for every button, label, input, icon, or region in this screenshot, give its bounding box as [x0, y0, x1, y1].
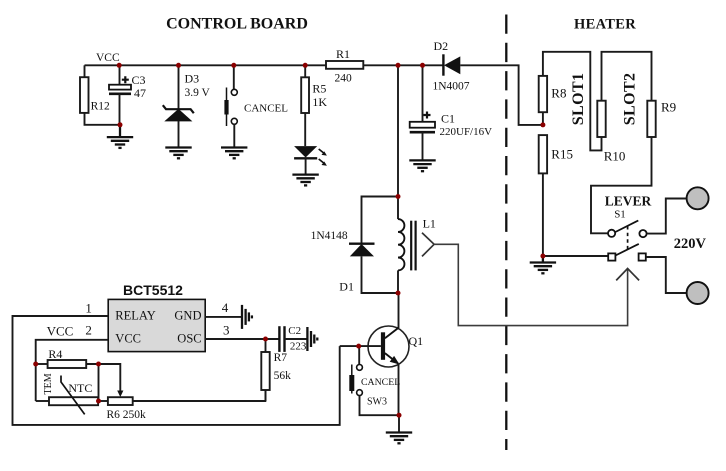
svg-text:R12: R12 [91, 101, 110, 113]
svg-text:1N4148: 1N4148 [311, 230, 348, 242]
wire rail R1 to D2 [363, 64, 443, 66]
svg-text:R4: R4 [48, 347, 62, 361]
ground (Q1) [386, 433, 412, 444]
linkage wire contact to lever arrow [434, 244, 627, 325]
resistor R7 [261, 339, 291, 401]
relay coil L1 [398, 216, 436, 293]
svg-text:3.9 V: 3.9 V [185, 87, 211, 99]
svg-text:D2: D2 [434, 39, 449, 53]
wire VCC top rail [85, 64, 327, 66]
svg-text:SW3: SW3 [367, 397, 387, 408]
capacitor C3 [109, 65, 146, 125]
svg-text:CANCEL: CANCEL [244, 102, 288, 114]
svg-text:GND: GND [174, 308, 201, 322]
LED D4 [294, 146, 327, 175]
svg-text:2: 2 [85, 323, 92, 338]
wire emitter to ground [398, 415, 400, 432]
ground (C2, sideways) [307, 327, 317, 351]
wire S1 bottom to terminal [646, 257, 687, 293]
svg-text:NTC: NTC [68, 381, 92, 395]
wire pin1 RELAY loop to base [13, 316, 340, 425]
svg-text:RELAY: RELAY [115, 308, 156, 322]
svg-text:1: 1 [85, 301, 92, 316]
svg-text:1N4007: 1N4007 [433, 81, 470, 93]
ground (C1) [409, 160, 435, 171]
zener diode D3 [163, 65, 211, 147]
resistor R5 [301, 65, 327, 146]
transistor Q1 [368, 326, 423, 367]
svg-text:OSC: OSC [177, 332, 201, 346]
wire emitter [398, 364, 400, 416]
heater resistor R8 [539, 52, 602, 151]
ground (heater) [530, 256, 556, 273]
heater resistor R15 [539, 135, 573, 256]
resistor R12 [80, 65, 120, 125]
svg-text:TEM: TEM [43, 373, 54, 394]
board separator dashed line [505, 15, 507, 451]
switch S1 LEVER [605, 193, 652, 260]
wire base [340, 345, 381, 347]
wire S1 top to terminal [647, 199, 687, 234]
svg-text:R8: R8 [551, 86, 566, 101]
heater resistor R9 [591, 100, 676, 234]
svg-text:R15: R15 [551, 147, 573, 162]
svg-text:240: 240 [335, 73, 353, 85]
svg-text:47: 47 [134, 86, 146, 100]
IC U1 BCT5512 [108, 282, 205, 352]
svg-text:D1: D1 [339, 280, 354, 294]
svg-text:R6 250k: R6 250k [107, 409, 147, 421]
wire lever bottom row [543, 255, 608, 257]
flyback diode D1 1N4148 [311, 197, 398, 294]
svg-text:L1: L1 [423, 216, 436, 230]
heater resistor R10 [597, 52, 651, 164]
wire collector [398, 293, 400, 328]
svg-text:220UF/16V: 220UF/16V [440, 126, 493, 138]
wire pin3 OSC [205, 338, 279, 340]
svg-text:R1: R1 [336, 47, 350, 61]
svg-text:1K: 1K [312, 95, 327, 109]
ground (CANCEL top) [221, 148, 247, 159]
svg-text:C2: C2 [288, 325, 301, 337]
svg-text:CONTROL BOARD: CONTROL BOARD [166, 16, 308, 33]
capacitor C2 [279, 325, 307, 353]
svg-text:220V: 220V [674, 236, 707, 252]
wire pin4 GND [205, 316, 242, 318]
svg-text:VCC: VCC [47, 323, 74, 338]
diode D2 [433, 39, 470, 93]
terminal (bottom) [687, 282, 709, 304]
svg-text:BCT5512: BCT5512 [123, 282, 183, 298]
svg-text:R7: R7 [274, 352, 288, 364]
ground (C3/R12) [107, 125, 133, 148]
svg-text:SLOT2: SLOT2 [622, 73, 639, 126]
relay contact arm [422, 233, 434, 257]
svg-text:S1: S1 [614, 208, 626, 220]
svg-text:D3: D3 [185, 71, 200, 85]
svg-text:Q1: Q1 [409, 334, 424, 348]
svg-text:223: 223 [290, 340, 307, 352]
svg-text:R5: R5 [312, 81, 326, 95]
svg-text:SLOT1: SLOT1 [570, 73, 587, 126]
wire rail D2 to heater [460, 65, 543, 125]
svg-text:56k: 56k [274, 370, 292, 382]
terminal (top) [687, 187, 709, 209]
wire pin2 VCC [36, 340, 109, 364]
svg-text:R10: R10 [604, 149, 626, 164]
potentiometer R6 250k [99, 364, 267, 421]
ground (LED) [292, 175, 318, 186]
svg-text:C1: C1 [441, 111, 455, 125]
pushbutton CANCEL (top) [224, 65, 288, 147]
wire relay branch down [397, 65, 399, 219]
svg-text:LEVER: LEVER [605, 193, 652, 208]
capacitor C1 [410, 65, 492, 160]
resistor R4 [36, 347, 121, 368]
svg-text:VCC: VCC [115, 332, 141, 346]
pushbutton SW3 CANCEL [349, 346, 400, 415]
svg-text:CANCEL: CANCEL [361, 377, 400, 388]
svg-text:HEATER: HEATER [574, 17, 636, 33]
resistor R1 [326, 47, 363, 85]
svg-text:4: 4 [222, 300, 229, 315]
ground (D3) [165, 148, 191, 159]
svg-text:VCC: VCC [96, 52, 120, 64]
svg-text:C3: C3 [132, 73, 146, 87]
thermistor NTC [36, 364, 98, 414]
svg-text:3: 3 [223, 322, 230, 337]
ground (pin4, sideways) [242, 305, 252, 329]
svg-text:R9: R9 [661, 100, 676, 115]
lever actuator arrow [616, 269, 639, 281]
wire R4-NTC right link [98, 364, 100, 401]
